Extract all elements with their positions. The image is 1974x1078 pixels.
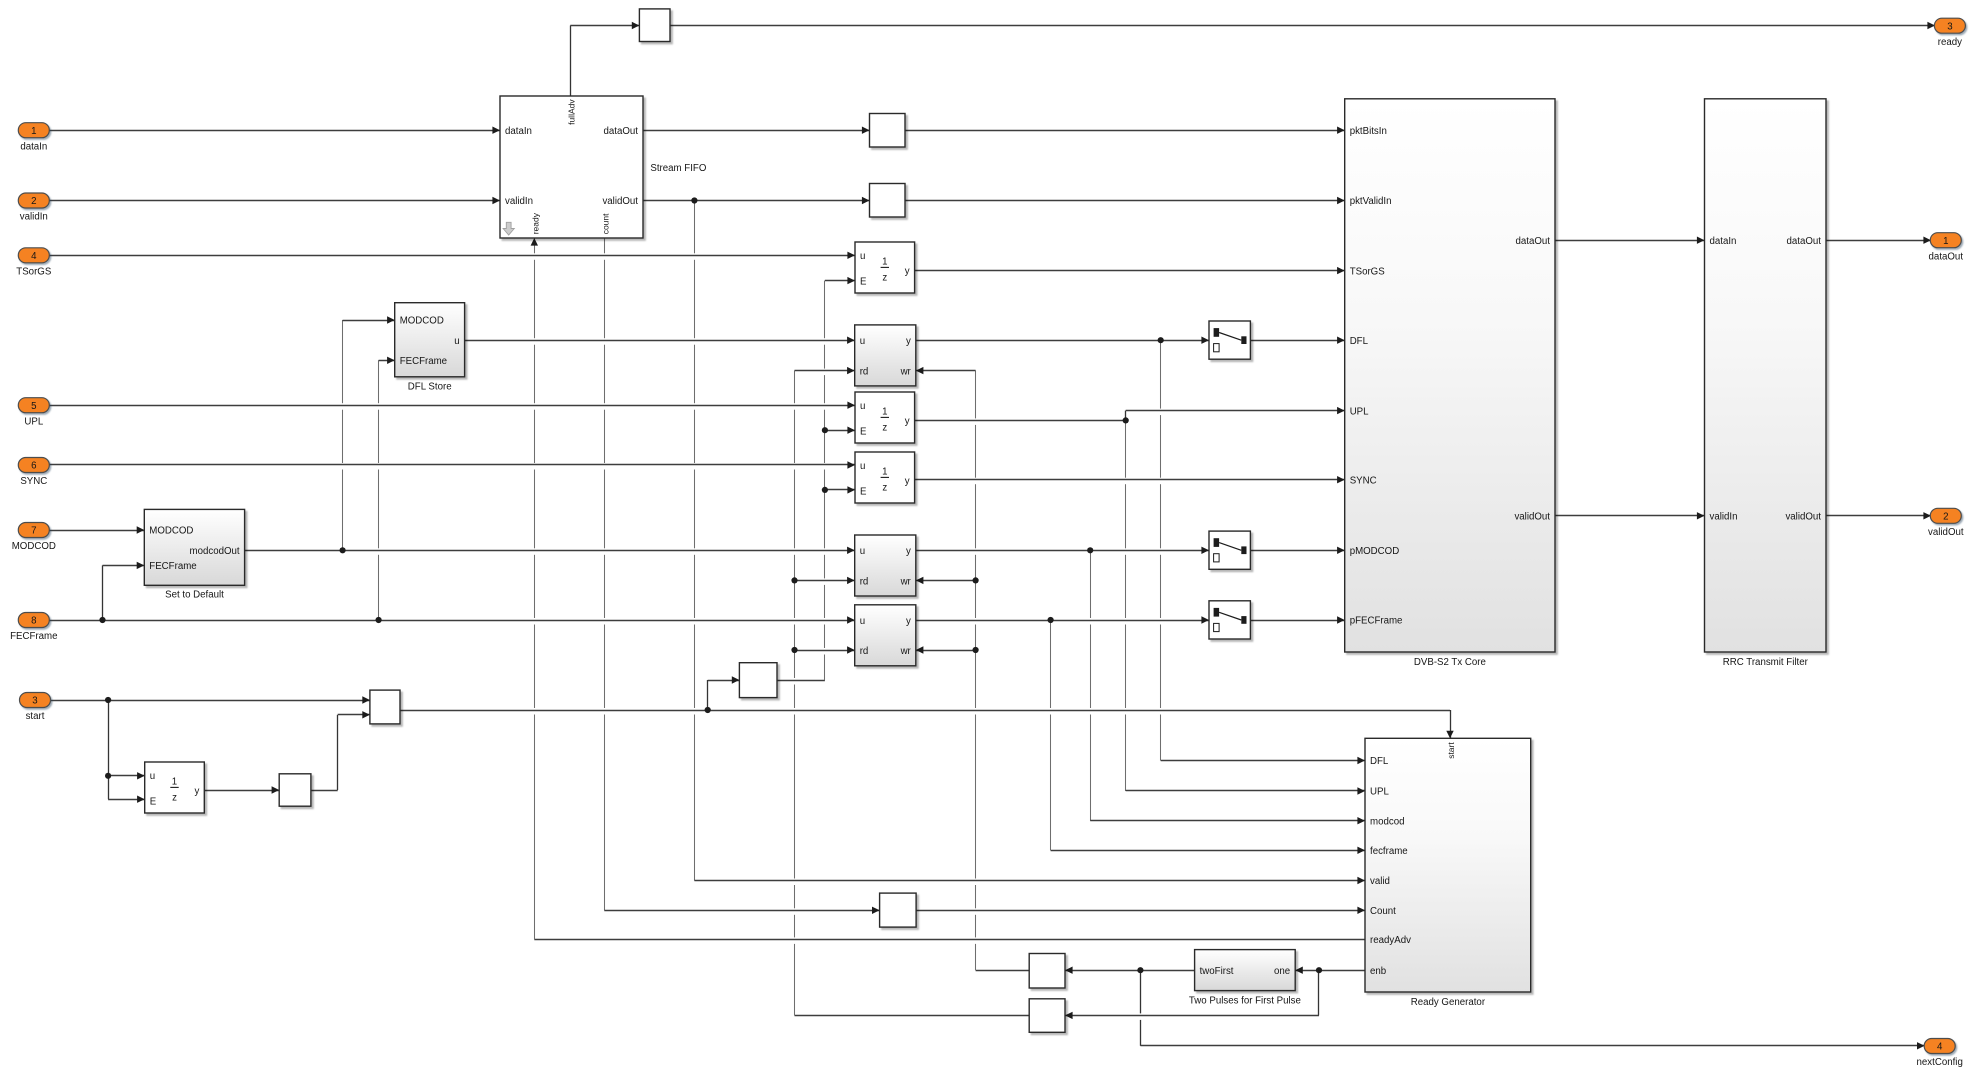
junction at 707.7,710 [705,707,711,713]
svg-text:Stream FIFO: Stream FIFO [650,163,706,174]
svg-text:pktBitsIn: pktBitsIn [1350,126,1387,137]
manual switch DFL [1209,321,1250,359]
wire switch to DFL port [1250,337,1344,344]
wire modcod branch down to Ready Generator [1090,550,1365,824]
svg-text:FECFrame: FECFrame [10,631,57,642]
wire wr stub RAM3 [916,646,976,653]
wire MODCOD to Set to Default [49,526,144,533]
wire FIFO count down to conv [604,238,879,914]
wire E stub delay3 [825,486,855,493]
svg-text:validOut: validOut [1785,512,1821,523]
junction at 694.4,200.5 [691,197,697,203]
svg-text:dataOut: dataOut [1787,236,1822,247]
svg-text:2: 2 [1943,512,1948,523]
wire rd stub RAM2 [795,577,855,584]
svg-text:3: 3 [1947,21,1952,32]
svg-text:UPL: UPL [1370,787,1389,798]
svg-text:u: u [860,401,865,412]
port 5 UPL [18,398,49,428]
svg-text:start: start [1446,742,1456,759]
svg-text:wr: wr [900,646,912,657]
conv square enable [739,663,777,698]
wire E stub delay2 [825,427,855,434]
block RAM MODCOD [855,535,916,596]
wire delay y to UPL port [915,407,1345,421]
port 3 start [20,693,51,723]
svg-text:y: y [906,336,911,347]
svg-text:FECFrame: FECFrame [400,356,447,367]
svg-text:fecframe: fecframe [1370,846,1408,857]
block Delay TSorGS [855,242,915,293]
junction at 102.5,620 [99,617,105,623]
wire enb branch down to conv [1065,970,1319,1019]
wire DVB validOut to RRC validIn [1555,512,1705,519]
wire E chain from conv square [777,277,855,681]
junction at 975.6,650 [973,647,979,653]
svg-text:z: z [882,482,887,493]
wire readyAdv to FIFO ready [531,238,1365,940]
svg-text:start: start [26,711,45,722]
conv square count [880,893,917,927]
svg-text:DFL Store: DFL Store [408,382,452,393]
svg-text:rd: rd [860,646,869,657]
wire switch to pMODCOD port [1250,547,1344,554]
wire fecframe branch down to Ready Generator [1051,620,1366,854]
svg-text:1: 1 [882,466,887,477]
wire RRC validOut to outport [1826,512,1931,519]
svg-text:1: 1 [31,126,36,137]
svg-text:SYNC: SYNC [1350,475,1377,486]
wire UPL branch down to Ready Generator [1126,420,1366,794]
wire RRC dataOut to outport [1826,237,1931,244]
svg-text:u: u [454,336,459,347]
conv square rd [1029,999,1065,1033]
svg-text:validOut: validOut [1514,512,1550,523]
wire conv up to OR [311,711,370,790]
block DFL Store [395,303,465,377]
svg-text:MODCOD: MODCOD [12,541,56,552]
junction at 1319,970.2 [1316,967,1322,973]
junction at 342.6,550.3 [340,547,346,553]
svg-text:pktValidIn: pktValidIn [1350,196,1392,207]
wire DVB dataOut to RRC dataIn [1555,237,1705,244]
svg-text:4: 4 [1937,1042,1943,1053]
wire DFL Store u to RAM u [465,337,855,344]
wire OR out to Ready Generator start [400,710,1454,738]
junction at 108.1,700 [105,697,111,703]
svg-text:DFL: DFL [1350,336,1369,347]
wire FIFO validOut to conv [643,197,870,204]
svg-text:validIn: validIn [1710,512,1738,523]
port 4 TSorGS [16,248,52,278]
port 4 nextConfig [1917,1039,1963,1069]
svg-text:z: z [172,792,177,803]
block DVB-S2 Tx Core [1345,99,1555,652]
svg-text:7: 7 [31,526,36,537]
block Ready Generator [1365,738,1531,992]
svg-text:TSorGS: TSorGS [1350,266,1386,277]
svg-text:DFL: DFL [1370,756,1389,767]
wire start down to delay E [108,776,145,803]
wire modcodOut to RAM u [245,547,855,554]
wire conv to pktValidIn [905,197,1345,204]
svg-text:RRC Transmit Filter: RRC Transmit Filter [1723,657,1809,668]
conv square dataOut [870,114,906,148]
svg-text:rd: rd [860,366,869,377]
svg-text:1: 1 [1943,236,1948,247]
logic OR square [370,690,400,724]
wire RAM y to switch pMODCOD [916,547,1209,554]
junction at 794.5,650 [791,647,797,653]
junction at 1125.7,420.4 [1123,417,1129,423]
wire conv to Count port [916,907,1365,914]
block Set to Default [144,509,244,585]
port 6 SYNC [18,458,49,488]
wire RAM y to switch [916,337,1209,344]
wire UPL to delay u [49,402,855,409]
junction at 1160.7,340.2 [1158,337,1164,343]
svg-text:z: z [882,422,887,433]
wire modcod branch up to DFL Store [343,316,395,550]
junction at 1090.2,550.3 [1087,547,1093,553]
svg-text:1: 1 [882,256,887,267]
port 3 ready [1934,18,1965,48]
svg-text:pMODCOD: pMODCOD [1350,546,1400,557]
svg-text:MODCOD: MODCOD [400,316,444,327]
junction at 794.5,580.4 [791,577,797,583]
wire SYNC to delay u [49,461,855,468]
port 1 dataIn [18,123,49,153]
port 1 dataOut [1929,233,1964,263]
wire delay y to SYNC port [915,476,1345,483]
svg-text:y: y [905,266,910,277]
svg-text:dataIn: dataIn [505,126,532,137]
junction at 824.9,489.9 [822,487,828,493]
svg-text:u: u [860,616,865,627]
port 7 MODCOD [12,523,56,553]
wire fullAdv up to conv square [570,22,639,96]
svg-text:rd: rd [860,576,869,587]
block RAM DFL [855,325,916,386]
svg-text:wr: wr [900,576,912,587]
svg-text:dataOut: dataOut [604,126,639,137]
svg-text:E: E [860,426,867,437]
svg-text:1: 1 [882,406,887,417]
svg-text:fullAdv: fullAdv [566,99,576,125]
svg-text:8: 8 [31,616,36,627]
svg-text:dataOut: dataOut [1516,236,1551,247]
svg-text:u: u [860,251,865,262]
block RRC Transmit Filter [1705,99,1827,652]
svg-text:E: E [860,486,867,497]
wire conv to ready outport [670,22,1935,29]
svg-text:UPL: UPL [1350,406,1369,417]
svg-text:y: y [905,416,910,427]
svg-text:1: 1 [172,776,177,787]
svg-text:nextConfig: nextConfig [1917,1057,1963,1068]
wire start down to delay u [108,700,145,780]
wire DFL branch down to Ready Generator [1161,340,1366,764]
svg-text:validIn: validIn [505,196,533,207]
manual switch pFECFrame [1209,601,1250,639]
wire delay y to TSorGS port [915,267,1345,274]
manual switch pMODCOD [1209,531,1250,569]
wire twoFirst to conv [1065,967,1195,974]
svg-text:5: 5 [31,401,36,412]
wire rd stub RAM3 [795,646,855,653]
svg-text:3: 3 [32,696,37,707]
svg-text:y: y [906,616,911,627]
junction at 378.6,620 [376,617,382,623]
block RAM FECFrame [855,605,916,666]
svg-text:wr: wr [900,366,912,377]
svg-text:readyAdv: readyAdv [1370,935,1411,946]
svg-text:modcodOut: modcodOut [190,546,240,557]
svg-text:u: u [860,546,865,557]
junction at 824.9,430.2 [822,427,828,433]
svg-text:dataIn: dataIn [1710,236,1737,247]
junction at 1140.4,970.2 [1137,967,1143,973]
svg-text:dataOut: dataOut [1929,251,1964,262]
svg-text:y: y [194,786,199,797]
port 8 FECFrame [10,613,57,643]
wire valid branch down to Ready Generator [694,201,1365,885]
wire FECFrame to RAM u [49,616,854,623]
svg-text:one: one [1274,966,1290,977]
wire enb to one [1295,967,1365,974]
svg-text:twoFirst: twoFirst [1200,966,1234,977]
svg-text:validIn: validIn [20,212,48,223]
svg-text:modcod: modcod [1370,816,1404,827]
svg-text:TSorGS: TSorGS [16,267,52,278]
svg-text:MODCOD: MODCOD [149,526,193,537]
conv square start delay [279,774,311,806]
wire wr stub RAM2 [916,577,976,584]
block Delay start [145,762,205,813]
wire rd chain from conv square [795,367,1030,1016]
svg-text:Count: Count [1370,906,1396,917]
wire dataIn to Stream FIFO [49,127,500,134]
svg-text:pFECFrame: pFECFrame [1350,616,1403,627]
svg-text:enb: enb [1370,966,1386,977]
svg-text:Ready Generator: Ready Generator [1411,997,1486,1008]
port 2 validOut [1928,508,1964,538]
svg-text:dataIn: dataIn [20,141,47,152]
svg-text:count: count [600,213,610,234]
svg-text:ready: ready [1938,37,1962,48]
svg-text:u: u [150,771,155,782]
wire TSorGS to delay u [49,252,855,259]
wire twoFirst branch to nextConfig [1140,970,1924,1049]
svg-text:ready: ready [530,212,540,234]
wire FIFO dataOut to conv [643,127,870,134]
svg-text:y: y [905,476,910,487]
svg-text:validOut: validOut [1928,527,1964,538]
wire start to OR [50,696,370,703]
svg-text:E: E [860,276,867,287]
svg-text:FECFrame: FECFrame [149,561,196,572]
block Two Pulses for First Pulse [1195,950,1296,991]
svg-text:Set to Default: Set to Default [165,590,224,601]
block Stream FIFO [500,96,643,238]
wire start branch up to conv [708,676,740,710]
svg-text:2: 2 [31,196,36,207]
junction at 1050.6,620 [1048,617,1054,623]
wire RAM y to switch pFECFrame [916,616,1209,623]
junction at 108.1,775.8 [105,773,111,779]
port 2 validIn [18,193,49,223]
conv square fullAdv [639,9,670,42]
svg-text:u: u [860,461,865,472]
svg-text:y: y [906,546,911,557]
wire switch to pFECFrame port [1250,616,1344,623]
wire FECFrame branch up to DFL Store [379,357,395,620]
svg-text:DVB-S2 Tx Core: DVB-S2 Tx Core [1414,657,1486,668]
conv square validOut [870,184,906,218]
wire validIn to Stream FIFO [49,197,500,204]
block Delay SYNC [855,452,915,503]
svg-text:UPL: UPL [24,416,43,427]
conv square wr [1029,954,1065,989]
svg-text:valid: valid [1370,876,1390,887]
junction at 975.6,580.4 [973,577,979,583]
svg-text:E: E [150,796,157,807]
wire conv to pktBitsIn [905,127,1345,134]
svg-text:6: 6 [31,461,36,472]
wire FECFrame branch up to Set to Default [103,562,145,620]
wire delay y to conv [204,786,279,793]
block Delay UPL [855,392,915,443]
svg-text:z: z [882,272,887,283]
svg-text:validOut: validOut [602,196,638,207]
svg-text:SYNC: SYNC [20,476,47,487]
svg-text:4: 4 [31,251,37,262]
svg-text:u: u [860,336,865,347]
wire wr chain from conv square [916,367,1029,971]
svg-text:Two Pulses for First Pulse: Two Pulses for First Pulse [1189,995,1301,1006]
